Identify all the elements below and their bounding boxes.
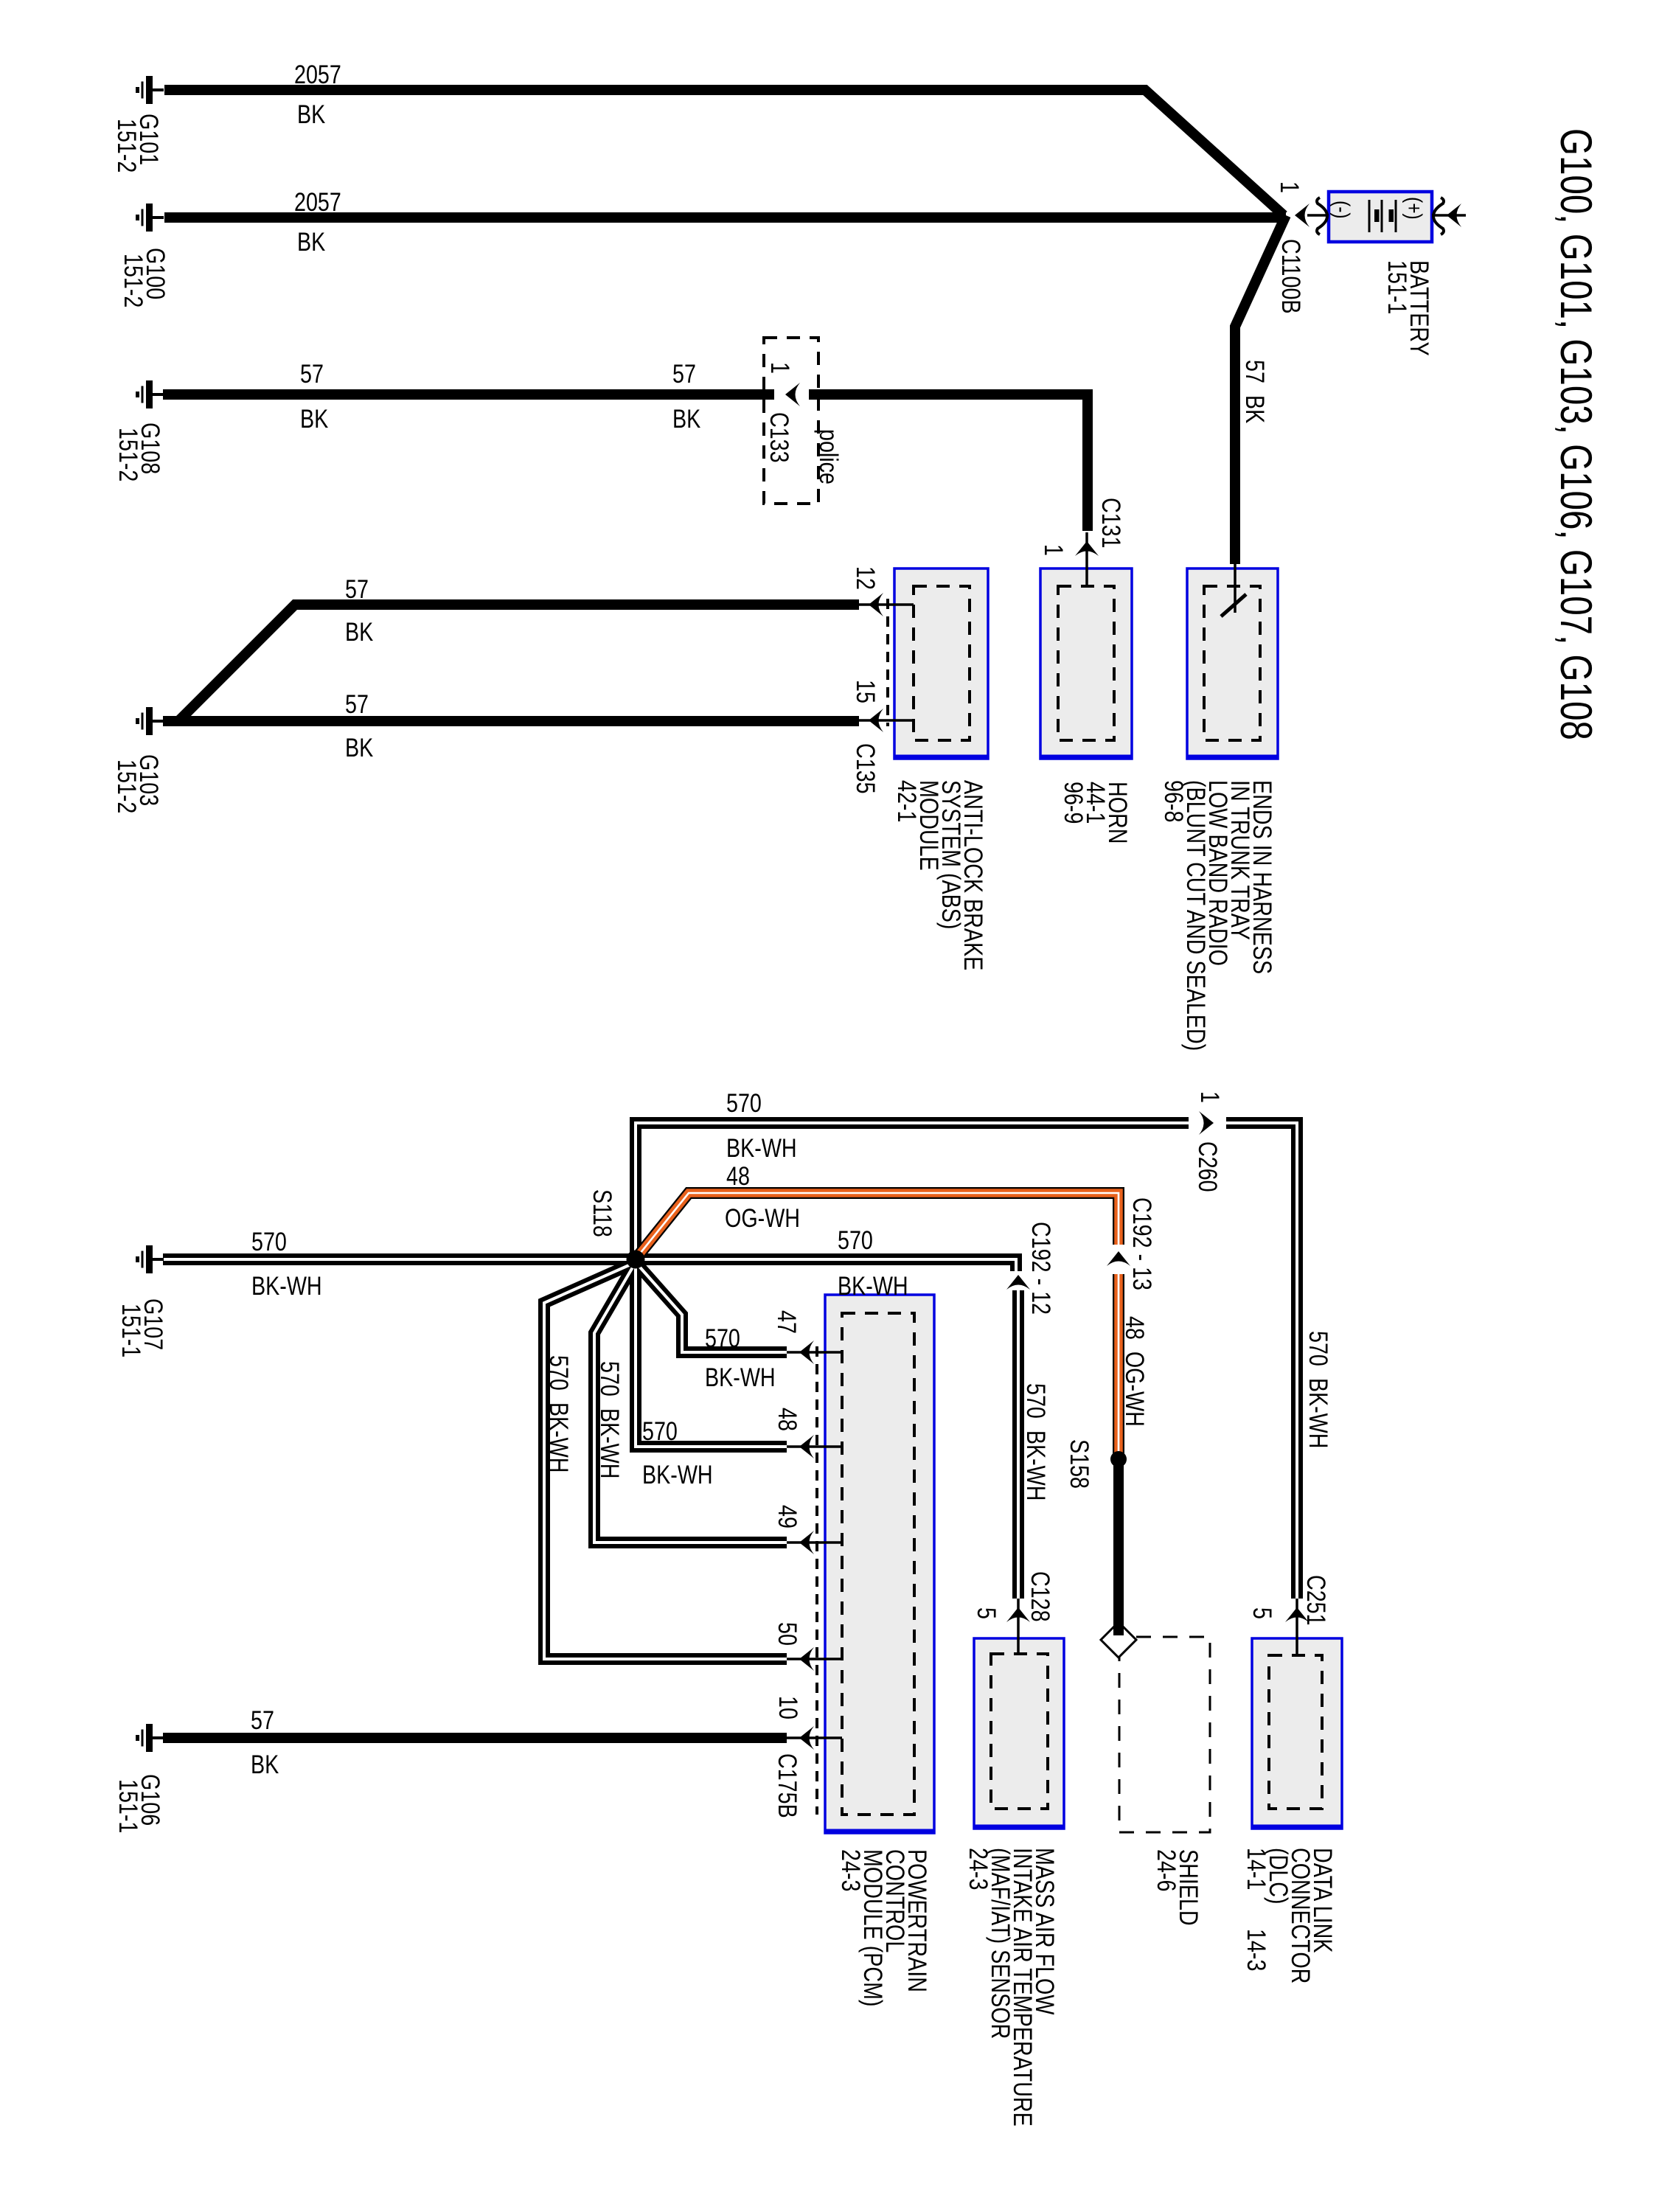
svg-text:C128: C128	[1026, 1571, 1054, 1622]
svg-text:5: 5	[1248, 1607, 1276, 1619]
svg-text:14-1: 14-1	[1242, 1848, 1270, 1890]
svg-text:42-1: 42-1	[892, 780, 921, 822]
svg-text:151-1: 151-1	[1382, 260, 1411, 314]
svg-text:570: 570	[642, 1416, 678, 1445]
svg-text:15: 15	[851, 680, 880, 703]
svg-text:57: 57	[300, 359, 324, 388]
svg-text:OG-WH: OG-WH	[725, 1203, 800, 1232]
svg-text:570 BK-WH: 570 BK-WH	[544, 1355, 573, 1472]
svg-text:57: 57	[672, 359, 696, 388]
svg-text:151-2: 151-2	[119, 254, 147, 307]
svg-text:BK: BK	[345, 617, 373, 646]
svg-text:C192 - 12: C192 - 12	[1026, 1222, 1055, 1315]
svg-text:C133: C133	[765, 412, 793, 463]
svg-text:BK-WH: BK-WH	[726, 1133, 797, 1162]
svg-text:151-1: 151-1	[116, 1304, 145, 1357]
svg-text:57: 57	[251, 1705, 274, 1734]
svg-text:151-2: 151-2	[114, 428, 142, 481]
svg-text:57 BK: 57 BK	[1240, 360, 1269, 423]
svg-text:(-): (-)	[1329, 201, 1354, 219]
svg-text:BK: BK	[300, 404, 328, 433]
svg-text:C260: C260	[1193, 1141, 1222, 1192]
svg-text:1: 1	[1039, 544, 1068, 556]
svg-text:G100, G101, G103, G106, G107,: G100, G101, G103, G106, G107, G108	[1551, 128, 1601, 740]
svg-text:96-8: 96-8	[1159, 780, 1188, 822]
svg-text:10: 10	[773, 1696, 802, 1719]
svg-text:BK: BK	[297, 227, 325, 256]
svg-text:14-3: 14-3	[1242, 1929, 1270, 1971]
svg-text:BK-WH: BK-WH	[251, 1271, 322, 1300]
svg-text:2057: 2057	[294, 60, 341, 88]
svg-text:BK-WH: BK-WH	[642, 1460, 713, 1489]
svg-text:24-6: 24-6	[1152, 1849, 1180, 1891]
svg-text:BK-WH: BK-WH	[838, 1271, 908, 1300]
svg-text:S158: S158	[1065, 1439, 1093, 1489]
svg-text:48: 48	[726, 1161, 750, 1190]
svg-text:C175B: C175B	[773, 1753, 801, 1818]
svg-text:570: 570	[838, 1225, 873, 1254]
svg-text:570 BK-WH: 570 BK-WH	[1021, 1383, 1050, 1500]
svg-text:C251: C251	[1301, 1575, 1330, 1626]
svg-text:570 BK-WH: 570 BK-WH	[595, 1361, 624, 1478]
svg-text:570: 570	[705, 1324, 740, 1352]
svg-text:S118: S118	[588, 1189, 616, 1237]
svg-text:570: 570	[251, 1227, 287, 1256]
svg-text:570 BK-WH: 570 BK-WH	[1304, 1331, 1332, 1448]
svg-text:57: 57	[345, 689, 369, 718]
svg-text:BK-WH: BK-WH	[705, 1363, 776, 1391]
svg-text:151-2: 151-2	[112, 759, 141, 813]
svg-text:24-3: 24-3	[964, 1848, 992, 1890]
svg-text:96-9: 96-9	[1059, 782, 1088, 824]
svg-text:(+): (+)	[1402, 197, 1427, 220]
svg-text:2057: 2057	[294, 187, 341, 216]
svg-text:24-3: 24-3	[836, 1849, 865, 1891]
svg-text:1: 1	[1195, 1091, 1224, 1103]
svg-text:BK: BK	[297, 100, 325, 128]
svg-text:1: 1	[765, 362, 794, 374]
svg-text:50: 50	[773, 1622, 801, 1646]
svg-text:C135: C135	[851, 743, 880, 794]
svg-text:C192 - 13: C192 - 13	[1127, 1197, 1156, 1290]
svg-text:151-1: 151-1	[114, 1779, 142, 1833]
svg-text:BK: BK	[251, 1750, 279, 1778]
svg-text:48 OG-WH: 48 OG-WH	[1120, 1316, 1149, 1427]
svg-text:police: police	[814, 429, 843, 484]
svg-text:47: 47	[772, 1310, 801, 1334]
svg-text:57: 57	[345, 574, 369, 603]
svg-text:C1100B: C1100B	[1276, 239, 1305, 314]
svg-text:1: 1	[1275, 181, 1304, 193]
svg-text:48: 48	[773, 1408, 801, 1431]
svg-text:BK: BK	[672, 404, 700, 433]
svg-text:570: 570	[726, 1088, 762, 1117]
svg-text:BK: BK	[345, 733, 373, 762]
svg-text:5: 5	[972, 1607, 1001, 1619]
svg-text:12: 12	[851, 566, 880, 590]
svg-text:49: 49	[773, 1505, 801, 1528]
svg-text:C131: C131	[1096, 498, 1125, 549]
svg-text:151-2: 151-2	[112, 119, 141, 173]
